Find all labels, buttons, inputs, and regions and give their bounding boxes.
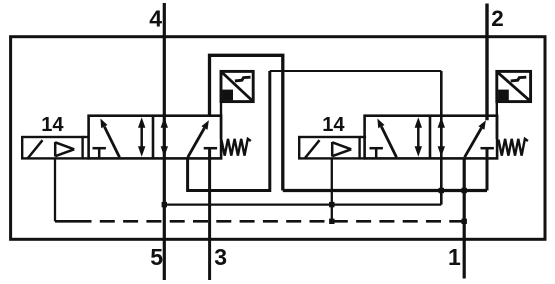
- svg-text:4: 4: [149, 6, 162, 32]
- svg-text:3: 3: [214, 244, 227, 270]
- svg-text:1: 1: [448, 244, 461, 270]
- svg-text:14: 14: [322, 114, 345, 136]
- svg-text:2: 2: [491, 6, 504, 31]
- svg-text:14: 14: [41, 114, 64, 136]
- svg-text:5: 5: [150, 244, 163, 270]
